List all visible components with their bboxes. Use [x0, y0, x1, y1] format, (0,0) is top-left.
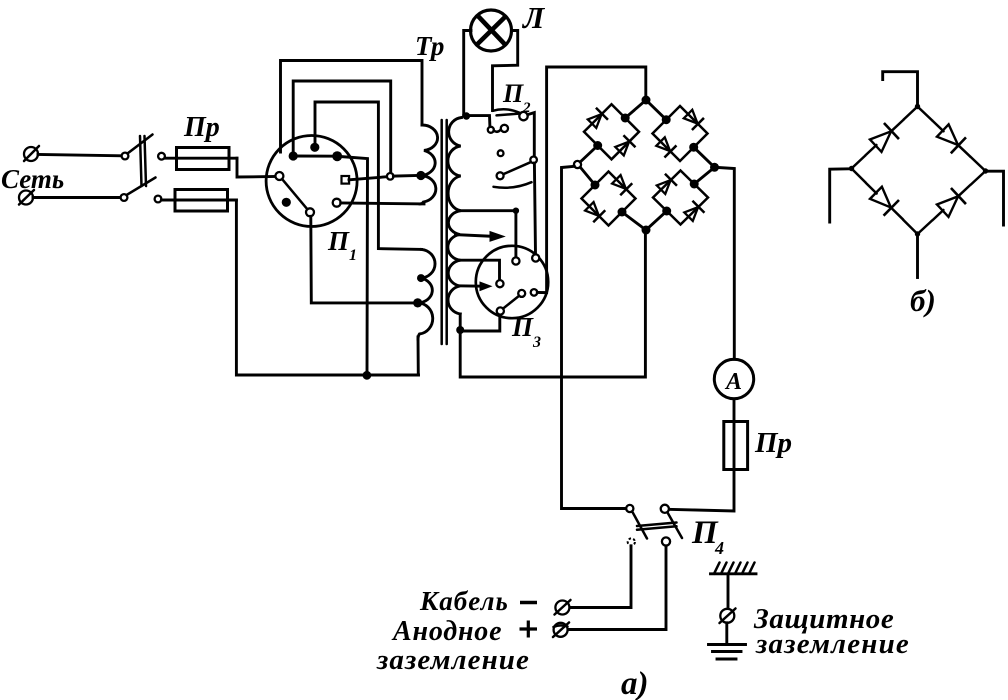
arm TR exit dot [689, 143, 698, 152]
P1 contact C4 [275, 172, 283, 180]
transformer primary section1 winding [420, 125, 438, 204]
P4 top-right contact [661, 505, 669, 513]
diode D1b on arm TL [614, 135, 636, 157]
secondary tap1 wire to P3 contact G1 [458, 211, 516, 258]
arm TR diamond [653, 106, 708, 161]
P2 blade [493, 109, 520, 115]
contact circle M [387, 173, 394, 180]
rotary switch P1 circle [266, 136, 357, 227]
P3 contact G2 [496, 280, 503, 287]
b edge BL [852, 169, 918, 235]
diode D4a on arm BR [655, 174, 677, 196]
chassis ground symbol [711, 563, 757, 574]
svg-text:4: 4 [714, 538, 724, 558]
svg-text:П: П [502, 79, 524, 108]
plus sign [520, 621, 538, 638]
adjustable tap arrow 2 [458, 281, 493, 291]
arm TR entry dot [662, 115, 671, 124]
diode D3a on arm BL [610, 173, 632, 195]
transformer secondary winding [448, 118, 462, 315]
wire C5 to circle M [349, 177, 388, 180]
wire outer loop: P1 rim up over to primary top [281, 61, 423, 153]
wire arm BL to bottom vertex [622, 212, 646, 230]
fuse Пр2 wire through [162, 199, 237, 202]
arm BL entry dot [591, 181, 600, 190]
svg-text:П: П [327, 226, 350, 256]
junction dot bottom rail [363, 371, 372, 380]
wire secondary bottom junction [460, 233, 645, 377]
minus sign [520, 601, 537, 604]
P3 contact G3 [497, 307, 504, 314]
anode terminal [553, 623, 569, 638]
label П3 [511, 312, 541, 351]
fuse Пр1 wire through [165, 157, 237, 160]
b bottom vertex dot [915, 231, 920, 236]
bridge V1 left vertex circle [574, 161, 581, 168]
switch B1 pole1 blade [128, 135, 153, 154]
wire lamp junction horizontal to P2 [464, 116, 490, 127]
b diode BL [858, 175, 911, 227]
P2 wafer contact F [498, 150, 504, 156]
wire top vertex to arm TL [625, 100, 646, 118]
svg-text:3: 3 [532, 334, 541, 351]
P4 blade left [632, 512, 647, 539]
wire terminal to earth [725, 623, 728, 642]
wire mains N to switch [33, 196, 121, 199]
arm BR exit dot [690, 180, 699, 189]
arm TL entry dot [621, 114, 630, 123]
b diode TR [925, 113, 978, 165]
wire lamp right lead down jog [493, 31, 518, 111]
adjustable tap arrow 1 [456, 231, 506, 242]
wire fuse2 down-left rail [236, 200, 418, 375]
b diode BR [925, 177, 978, 229]
P3 contact G1 [512, 257, 519, 264]
fuse Пр3 body vertical [724, 422, 748, 470]
P4 top-left contact [626, 505, 633, 512]
wire bottom vertex to arm BR [646, 211, 667, 230]
svg-text:заземление: заземление [376, 644, 530, 676]
primary tap2 junction dot [413, 298, 422, 307]
wire chassis to earth terminal [727, 574, 730, 609]
b wire bottom [916, 237, 919, 278]
b wire left [830, 169, 849, 222]
svg-text:1: 1 [349, 247, 357, 264]
wire P2 C to wafer stub [528, 113, 535, 157]
switch B1 link bar [140, 136, 146, 186]
b wire right [989, 171, 1004, 225]
P1 contact C2 [310, 143, 319, 152]
b right vertex dot [983, 168, 988, 173]
P3 contact J [531, 289, 538, 296]
earth terminal [720, 609, 736, 624]
rotary switch P3 circle [476, 246, 548, 318]
wire junction to P3 contact G3 [460, 314, 500, 331]
b top vertex dot [915, 104, 920, 109]
wire fuse1 to P1 left contact [237, 158, 276, 177]
P2 contact A [488, 127, 494, 133]
wire M to primary tap1 dot [393, 174, 417, 178]
wire left vertex down to P4 [562, 166, 627, 508]
P1 contact C7 [333, 199, 341, 207]
lamp L cross [477, 16, 506, 46]
wire C1-C3 [293, 155, 337, 158]
svg-text:Пр: Пр [183, 112, 220, 143]
arm TL exit dot [593, 141, 602, 150]
wire lamp left lead down [464, 31, 471, 116]
svg-text:А: А [724, 369, 742, 395]
svg-text:Тр: Тр [415, 31, 444, 61]
tap1 corner dot [513, 208, 519, 214]
wire arm TL to left vertex [580, 146, 598, 163]
arm BL exit dot [618, 208, 627, 217]
P4 bottom-right contact [662, 537, 670, 545]
label П4 [691, 515, 724, 558]
bridge V1 right vertex dot [710, 163, 719, 172]
wire arm TR to right vertex [694, 147, 715, 167]
P3 contact I [518, 290, 525, 297]
svg-text:Пр: Пр [754, 427, 792, 459]
switch B1 pole2 blade [127, 178, 156, 196]
transformer core line 2 [445, 120, 448, 344]
diode D4b on arm BR [683, 201, 705, 223]
P1 contact C3 [332, 151, 342, 161]
svg-text:Сеть: Сеть [1, 164, 64, 194]
bridge V1 bottom vertex dot [642, 226, 651, 235]
wire arm BR to right vertex [694, 167, 714, 184]
svg-text:Л: Л [521, 0, 546, 35]
earth ground symbol [709, 645, 746, 660]
wire P4 right to anode terminal [568, 546, 666, 630]
diode D3b on arm BL [583, 200, 605, 222]
P2 wafer contact D [530, 157, 537, 164]
b wire top [883, 72, 918, 104]
wire primary bottom to rail [417, 337, 420, 375]
P2 wafer arc [494, 182, 532, 188]
svg-text:заземление: заземление [755, 628, 910, 660]
label П2 [502, 79, 531, 116]
svg-text:а): а) [621, 666, 649, 700]
wire D down to P3 contact H [534, 163, 535, 254]
primary mid joint dot [417, 274, 425, 282]
wire left vertex to arm BL [581, 168, 596, 186]
transformer primary section2 winding [418, 249, 435, 339]
P1 blade C4-C8 [282, 179, 307, 209]
diode D2a on arm TR [682, 108, 704, 130]
P4 link bar [637, 523, 677, 530]
junction dot lamp/secondary top [463, 112, 470, 119]
P2 contact B with curl [494, 125, 508, 132]
P4 blade right [668, 513, 683, 539]
wire J right up to top rail over to bridge top [537, 67, 646, 293]
wire right vertex to ammeter [718, 168, 734, 360]
b edge TR [918, 107, 986, 172]
diode D2b on arm TR [655, 136, 677, 158]
P3 blade G3-I [503, 296, 519, 309]
arm BR diamond [653, 171, 708, 225]
wire P4 left to cable terminal [570, 546, 632, 608]
svg-text:Анодное: Анодное [391, 616, 502, 647]
P1 contact C8 [306, 208, 314, 216]
mains terminal X1 [24, 146, 39, 161]
ammeter A circle [714, 359, 753, 398]
fuse Пр2 body [175, 190, 228, 212]
secondary tap2 wire to P3 contact G2 [458, 260, 500, 280]
P2 wafer contact E [497, 172, 504, 179]
P1 contact C6 [282, 198, 291, 207]
wire middle loop: C1 up over to circle M [293, 81, 391, 173]
wire mains L to switch [38, 155, 122, 156]
P1 contact C1 [289, 151, 298, 160]
label П1 [327, 226, 357, 264]
wire C7 to primary sec1 bottom [341, 202, 424, 206]
diode D1a on arm TL [586, 108, 608, 130]
b diode TL [858, 112, 911, 164]
P3 contact H [532, 254, 539, 261]
b edge BR [918, 171, 986, 234]
svg-text:Кабель: Кабель [419, 586, 509, 616]
wire inner loop: C2 up over down to primary sec2 top [315, 102, 422, 249]
svg-text:П: П [511, 312, 534, 342]
fuse Пр1 body [177, 148, 230, 170]
junction dot secondary bottom [456, 326, 464, 334]
switch B1 pole2 contacts [121, 194, 162, 202]
P2 wafer blade D-E [503, 162, 530, 174]
svg-text:б): б) [910, 283, 936, 318]
wire top vertex to arm TR [646, 100, 666, 120]
arm BL diamond [582, 172, 636, 226]
wire C8 down right to primary tap2 dot [311, 216, 414, 303]
cable terminal [555, 600, 571, 615]
transformer core line 1 [440, 120, 443, 344]
lamp L circle [471, 10, 512, 51]
b left vertex dot [849, 166, 854, 171]
P1 contact C5 square [342, 176, 350, 184]
mains terminal X2 [19, 190, 34, 205]
P4 bottom-left contact [628, 538, 635, 545]
wire C3 right and down to bottom rail [340, 157, 368, 376]
arm BR entry dot [662, 207, 671, 216]
primary tap1 junction dot [416, 171, 425, 180]
arm TL diamond [584, 104, 639, 159]
P2 contact C [519, 112, 527, 120]
switch B1 pole1 contacts [122, 153, 165, 160]
wire ammeter down through fuse to P4 [669, 399, 734, 511]
bridge V1 top vertex dot [642, 96, 651, 105]
b edge TL [852, 107, 918, 169]
